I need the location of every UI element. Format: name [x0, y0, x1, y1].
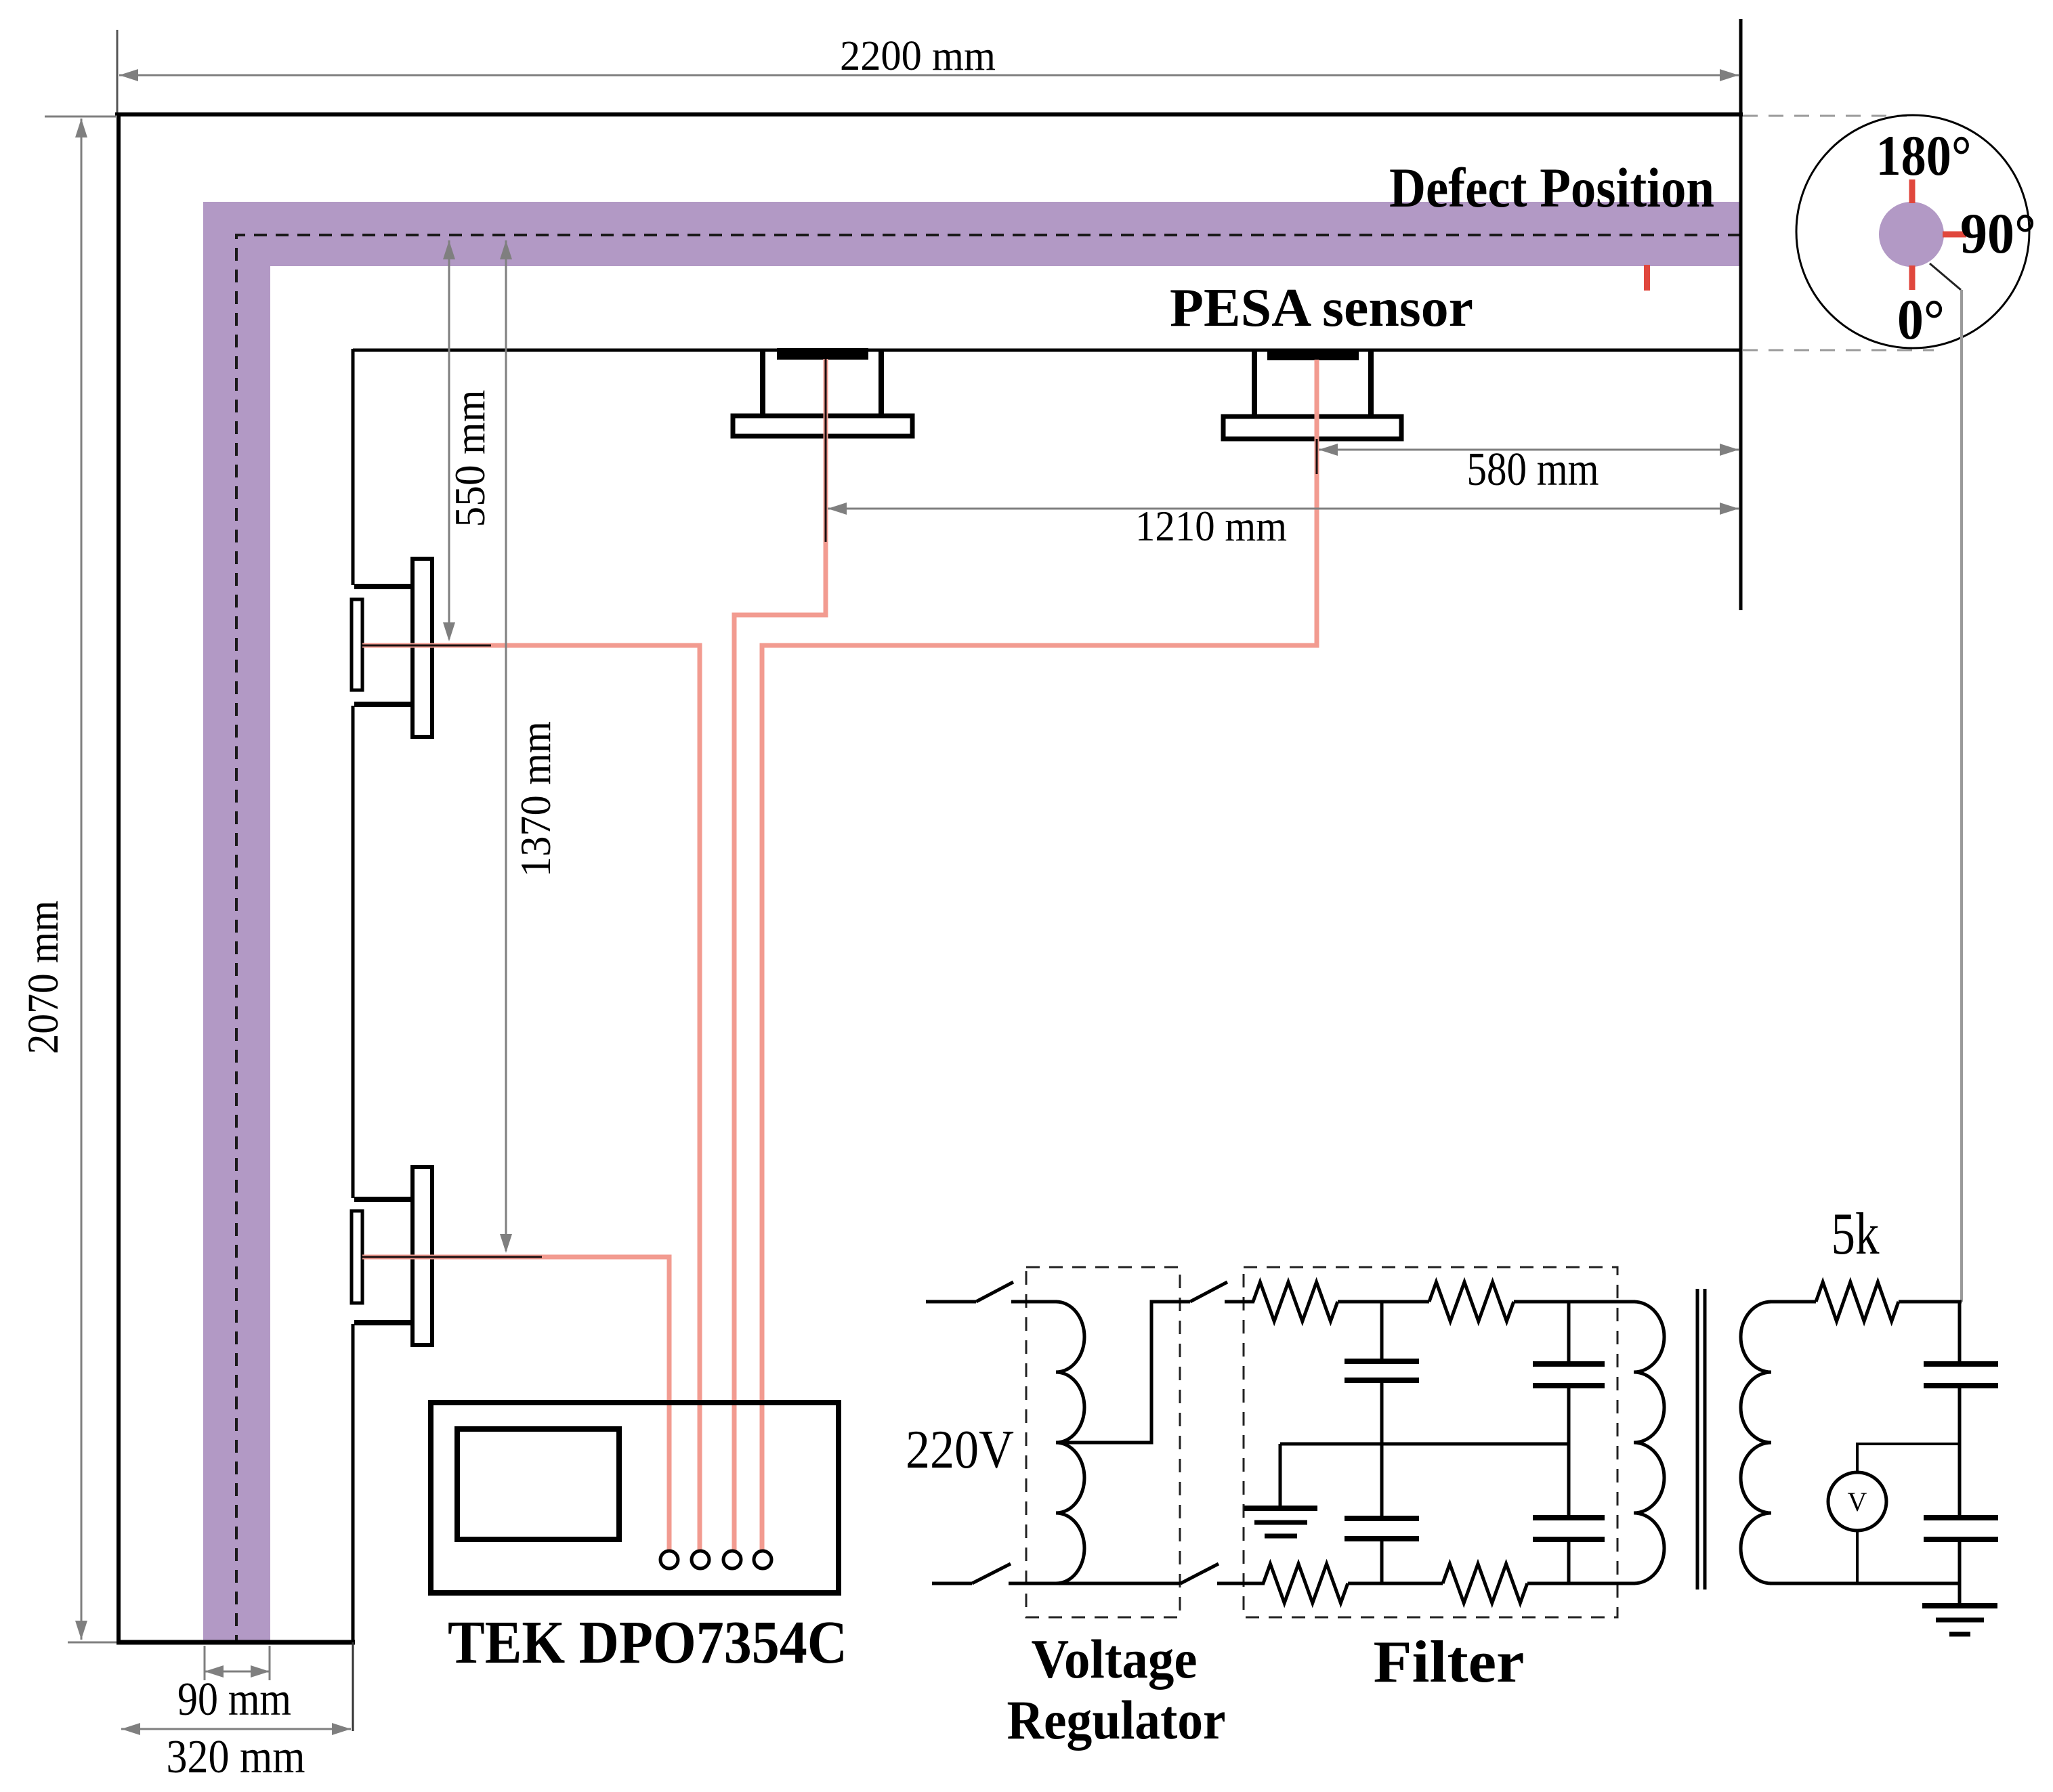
dim 90mm left tick: [204, 1646, 206, 1680]
svg-text:580 mm: 580 mm: [1467, 444, 1599, 496]
dim 2070mm top tick: [45, 116, 117, 118]
oscilloscope TEK DPO7354C body: [431, 1403, 839, 1593]
detail view dashed leader bottom: [1743, 349, 1934, 351]
dim 2200mm line: [119, 74, 1739, 77]
wall right edge / dimension tick: [1739, 19, 1743, 610]
scope connector ch1: [660, 1551, 678, 1569]
transformer T2 primary winding: [1634, 1302, 1664, 1583]
PESA sensor S4 lower leg: [354, 1320, 414, 1325]
filter ground stub: [1279, 1444, 1282, 1506]
detail view circle (pipe cross-section): [1796, 115, 2029, 348]
svg-text:TEK DPO7354C: TEK DPO7354C: [448, 1609, 847, 1676]
wire R3 to R4: [1348, 1582, 1443, 1585]
svg-text:Regulator: Regulator: [1007, 1689, 1226, 1751]
svg-text:90°: 90°: [1960, 202, 2036, 265]
PESA sensor S2 flange: [1223, 417, 1401, 439]
S1 probe stem (black): [825, 359, 827, 542]
C3 plates: [1533, 1361, 1605, 1367]
capacitor C5 plates: [1924, 1361, 1998, 1367]
svg-text:PESA sensor: PESA sensor: [1170, 278, 1473, 338]
detail view dashed leader top: [1743, 115, 1907, 117]
svg-text:5k: 5k: [1832, 1201, 1880, 1267]
svg-text:220V: 220V: [906, 1420, 1014, 1480]
angle tick 90deg (red): [1943, 232, 1966, 238]
signal wire from S2 to scope ch4: [762, 360, 1317, 1551]
dim 550mm line: [448, 240, 450, 639]
wall inner horizontal edge (bottom of top wall): [353, 349, 1741, 352]
PESA sensor S2 left leg: [1252, 350, 1257, 418]
S3 probe stem (black): [362, 645, 491, 647]
dim 320mm line: [121, 1728, 351, 1730]
220V input wire bottom: [932, 1582, 972, 1585]
wire SW2 to filter: [1225, 1300, 1254, 1304]
PESA sensor S1 (top wall, left) electrode: [777, 348, 868, 360]
angle tick 180deg (red): [1909, 179, 1916, 203]
dim 2070mm line: [81, 119, 83, 1640]
PESA sensor S3 flange: [412, 559, 432, 737]
ground right: [1922, 1603, 1997, 1608]
output bottom wire: [1770, 1582, 1960, 1585]
wall outer left edge: [117, 112, 121, 1644]
T1 center tap wire: [1056, 1302, 1190, 1443]
svg-text:Defect Position: Defect Position: [1389, 156, 1714, 219]
resistor 5k: [1816, 1282, 1899, 1321]
svg-text:2200 mm: 2200 mm: [840, 33, 996, 79]
wire R1 to R2: [1338, 1300, 1429, 1304]
leader from cross-section to measuring circuit: [1930, 263, 1961, 290]
svg-text:V: V: [1848, 1487, 1867, 1517]
pipe centerline dashed: [236, 235, 1741, 1642]
svg-text:Filter: Filter: [1374, 1629, 1525, 1695]
filter capacitor C1 top lead: [1380, 1302, 1384, 1361]
transformer T1 winding: [1056, 1302, 1084, 1583]
PESA sensor S1 flange: [733, 416, 912, 436]
svg-text:1370 mm: 1370 mm: [512, 721, 559, 877]
wire R4 to T2: [1527, 1582, 1635, 1585]
C3-C4 link: [1567, 1386, 1571, 1518]
PESA sensor S4 flange: [412, 1167, 432, 1345]
signal wire from S1 to scope ch3: [734, 359, 826, 1551]
C4 bottom lead: [1567, 1539, 1571, 1583]
scope connector ch2: [692, 1551, 709, 1569]
voltage regulator dashed box: [1026, 1267, 1180, 1617]
scope connector ch3: [723, 1551, 741, 1569]
wall outer top edge: [115, 112, 1743, 116]
T2 core: [1696, 1289, 1699, 1590]
wire T2 to 5k: [1770, 1300, 1816, 1304]
dim 1210mm line: [828, 508, 1739, 510]
220V input wire top: [926, 1300, 976, 1304]
dim 90mm right tick: [269, 1646, 271, 1680]
C2 bottom lead: [1380, 1539, 1384, 1583]
svg-text:90 mm: 90 mm: [177, 1673, 291, 1726]
voltmeter V1: [1828, 1472, 1886, 1531]
wire SW1 to T1: [1011, 1300, 1057, 1304]
filter resistor R2: [1429, 1282, 1514, 1321]
vertical leader wire to circuit (gray): [1960, 290, 1963, 1302]
filter resistor R4: [1443, 1564, 1527, 1603]
svg-text:Voltage: Voltage: [1032, 1628, 1198, 1690]
switch SW1 blade: [976, 1282, 1013, 1302]
switch SW3 blade: [972, 1564, 1011, 1583]
svg-text:180°: 180°: [1876, 124, 1972, 188]
voltmeter bottom lead: [1856, 1531, 1859, 1583]
svg-text:2070 mm: 2070 mm: [19, 901, 68, 1054]
svg-text:1210 mm: 1210 mm: [1135, 503, 1287, 550]
filter mid rail: [1280, 1443, 1569, 1446]
dim 1370mm line: [505, 240, 507, 1251]
ground stub right: [1958, 1583, 1962, 1604]
pipe weld band vertical (purple): [203, 202, 270, 1642]
switch SW4 blade: [1181, 1564, 1219, 1583]
voltmeter top lead: [1857, 1444, 1960, 1472]
svg-text:0°: 0°: [1897, 288, 1945, 351]
filter capacitor C2 plates: [1345, 1516, 1419, 1521]
svg-text:320 mm: 320 mm: [167, 1731, 305, 1783]
filter ground: [1244, 1506, 1317, 1511]
wall inner vertical edge segment 1: [352, 349, 355, 585]
transformer T2 secondary winding: [1741, 1302, 1771, 1583]
bottom wire through T1: [1009, 1582, 1181, 1585]
S4 probe stem (black): [362, 1256, 542, 1258]
output column top lead: [1958, 1302, 1962, 1364]
PESA sensor S3 upper leg: [354, 584, 414, 589]
pipe cross-section core (purple): [1879, 202, 1944, 267]
switch SW2 blade: [1190, 1282, 1227, 1302]
C5-C6 link: [1958, 1386, 1962, 1518]
filter resistor R3: [1263, 1564, 1348, 1603]
wall inner vertical edge segment 3: [352, 1324, 355, 1642]
defect position red tick: [1644, 265, 1650, 291]
wire 5k to output node: [1899, 1300, 1962, 1304]
filter capacitor C4 plates: [1533, 1515, 1605, 1520]
capacitor C6 plates: [1924, 1515, 1998, 1520]
PESA sensor S1 left leg: [760, 350, 765, 417]
dim 2200mm left tick: [117, 30, 119, 112]
angle tick 0deg (red): [1909, 265, 1916, 290]
dim 90mm line: [205, 1671, 270, 1673]
PESA sensor S3 lower leg: [354, 702, 414, 707]
PESA sensor S2 (top wall, right) electrode: [1267, 349, 1359, 360]
wire R2 to T2: [1514, 1300, 1635, 1304]
C6 bottom lead: [1958, 1539, 1962, 1583]
PESA sensor S3 (left wall, upper) electrode: [352, 599, 362, 690]
PESA sensor S4 (left wall, lower) electrode: [352, 1211, 362, 1303]
scope connector ch4: [754, 1551, 771, 1569]
pipe weld band horizontal (purple): [203, 202, 1741, 266]
PESA sensor S1 right leg: [879, 350, 884, 417]
C1 plates: [1345, 1359, 1419, 1364]
wall inner vertical edge segment 2: [352, 706, 355, 1198]
dim 2070mm bottom tick: [68, 1642, 117, 1644]
filter dashed box: [1244, 1267, 1617, 1617]
oscilloscope screen: [457, 1429, 619, 1539]
filter resistor R1: [1253, 1282, 1338, 1321]
filter capacitor C3 top lead: [1567, 1302, 1571, 1364]
extension line below wall (320 mm right tick): [352, 1642, 354, 1731]
PESA sensor S2 right leg: [1368, 350, 1374, 418]
svg-text:550 mm: 550 mm: [446, 390, 494, 528]
wall bottom edge (left leg): [117, 1640, 355, 1645]
C1-C2 link: [1380, 1380, 1384, 1518]
wire SW4 to filter: [1217, 1582, 1265, 1585]
signal wire from S3 to scope ch2: [362, 645, 700, 1551]
signal wire from S4 to scope ch1: [362, 1257, 669, 1551]
dim 580mm line: [1319, 449, 1739, 451]
PESA sensor S4 upper leg: [354, 1197, 414, 1202]
S2 probe stem (black): [1316, 439, 1318, 474]
